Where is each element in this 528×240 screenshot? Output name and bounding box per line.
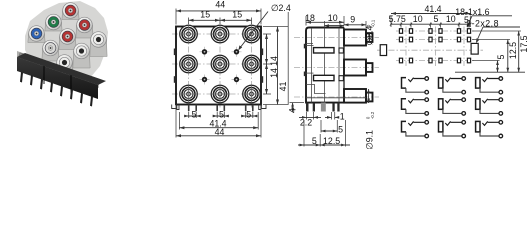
svg-text:15: 15: [232, 9, 242, 19]
jack symbol J7: [402, 121, 429, 138]
black plastic base: [17, 57, 98, 99]
footprint right dimensions 5 12.5 17.5: [455, 31, 528, 72]
dimension 41 right: [263, 12, 289, 105]
jack front view r3c1: [180, 85, 198, 103]
centerlines side view: [294, 37, 379, 39]
dimension 5 side mid: [321, 120, 343, 134]
mounting ears: [172, 105, 266, 110]
photo of 3x3 RCA jack block: [17, 1, 108, 107]
dimension 14 14 right: [263, 34, 279, 94]
dimension 10 side: [325, 13, 345, 27]
RCA jack photo r2c1: [42, 40, 59, 61]
svg-text:5: 5: [312, 136, 317, 146]
side view base pins: [306, 103, 309, 112]
side barrel 2: [344, 60, 366, 76]
RCA jack photo r1c1: [28, 26, 45, 43]
svg-text:4: 4: [288, 108, 298, 113]
jack symbol J1: [402, 77, 429, 94]
dia 9.1 tolerance label: [365, 89, 375, 150]
svg-text:41: 41: [278, 82, 288, 92]
RCA jack photo r3c3: [90, 32, 107, 57]
RCA jack photo r1c2: [45, 14, 62, 31]
front pins: [188, 105, 190, 112]
svg-text:44: 44: [215, 0, 225, 10]
svg-text:1: 1: [340, 112, 345, 122]
svg-text:9: 9: [350, 14, 355, 24]
bottom-left interior step: [306, 44, 326, 94]
svg-text:10: 10: [413, 14, 423, 24]
jack symbol J8: [439, 121, 466, 138]
label dia 2.4 with leader: [238, 3, 291, 51]
svg-text:10: 10: [328, 13, 338, 23]
dimension 4 side: [288, 103, 305, 114]
svg-text:∅9.1: ∅9.1: [365, 130, 375, 149]
front view body outline: [176, 27, 261, 105]
jack front view r3c2: [211, 85, 229, 103]
side view: [294, 28, 379, 112]
centerlines front view: [172, 33, 265, 35]
hex nut marks: [18, 53, 27, 62]
svg-text:17.5: 17.5: [519, 35, 528, 52]
svg-text:12.5: 12.5: [323, 136, 340, 146]
RCA jack photo r2c2: [59, 29, 76, 50]
svg-text:5: 5: [496, 54, 506, 59]
side barrel 3: [344, 89, 366, 103]
side barrel 1: [344, 30, 366, 46]
dimension 18 side: [305, 13, 344, 26]
svg-text:-0.2: -0.2: [370, 111, 375, 119]
svg-text:5.75: 5.75: [389, 14, 406, 24]
jack front view r1c3: [243, 25, 261, 43]
dimension 41.4 footprint: [391, 4, 470, 27]
svg-text:5: 5: [192, 109, 197, 119]
svg-text:-0.1: -0.1: [371, 19, 376, 27]
dimension 44 top: [176, 0, 261, 24]
RCA jack photo r3c2: [73, 43, 90, 68]
jack front view r2c3: [243, 55, 261, 73]
side view body outline: [306, 28, 344, 103]
jack symbol J2: [439, 77, 466, 94]
dimension 44 bottom: [176, 106, 261, 138]
mounting pad 2x2.8 left: [380, 45, 386, 56]
jack symbol J4: [402, 98, 429, 115]
svg-text:2.2: 2.2: [300, 118, 312, 128]
RCA jack photo r3c1: [56, 55, 73, 80]
jack symbol J6: [476, 98, 503, 115]
svg-text:∅2.4: ∅2.4: [271, 3, 291, 13]
side nubs: [174, 49, 176, 56]
jack front view r2c2: [211, 55, 229, 73]
svg-text:41.4: 41.4: [424, 4, 441, 14]
svg-text:5: 5: [246, 109, 251, 119]
dia 8.4 tolerance label: [365, 19, 376, 45]
jack front view r3c3: [243, 85, 261, 103]
base pins: [20, 72, 23, 83]
jack front view r1c2: [211, 25, 229, 43]
RCA jack photo r1c3: [62, 3, 79, 20]
front view: [172, 24, 266, 112]
dimension 2.2 side: [299, 112, 321, 128]
footprint centerlines: [377, 49, 483, 51]
jack front view r1c1: [180, 25, 198, 43]
footprint pitch labels 5.75 10 5 10 5: [389, 14, 472, 28]
jack front view r2c1: [180, 55, 198, 73]
dimension 1 side: [325, 112, 345, 122]
PCB footprint view: [377, 27, 483, 67]
svg-text:15: 15: [200, 9, 210, 19]
label 18-1x1.6 with leader: [455, 7, 512, 28]
label 2-2x2.8 with leader: [466, 18, 520, 43]
dimension 5 pin spacing x3: [184, 109, 257, 119]
footprint pads 18x 1x1.6: [399, 29, 402, 34]
jack symbol J5: [439, 98, 466, 115]
RCA jack photo r2c3: [76, 17, 93, 38]
latch bars: [314, 48, 335, 53]
base seams: [43, 66, 45, 84]
svg-text:5: 5: [338, 124, 343, 134]
dimension 9 side: [344, 14, 366, 28]
svg-text:18: 18: [305, 13, 315, 23]
silver jack cluster hull: [25, 1, 108, 84]
dimension 15 15: [189, 9, 252, 24]
dimension 5 and 12.5 bottom side: [298, 120, 350, 147]
left lugs: [304, 44, 306, 49]
dimension 41.4 bottom: [179, 112, 258, 130]
jack symbol J3: [476, 77, 503, 94]
svg-text:12.5: 12.5: [508, 42, 518, 59]
jack symbol J9: [476, 121, 503, 138]
silver flange band above base: [17, 51, 99, 88]
mounting pad 2x2.8 right: [471, 43, 478, 54]
2.4mm holes: [200, 47, 210, 57]
svg-text:5: 5: [433, 14, 438, 24]
svg-text:∅8.4: ∅8.4: [365, 25, 375, 45]
svg-text:44: 44: [215, 127, 225, 137]
